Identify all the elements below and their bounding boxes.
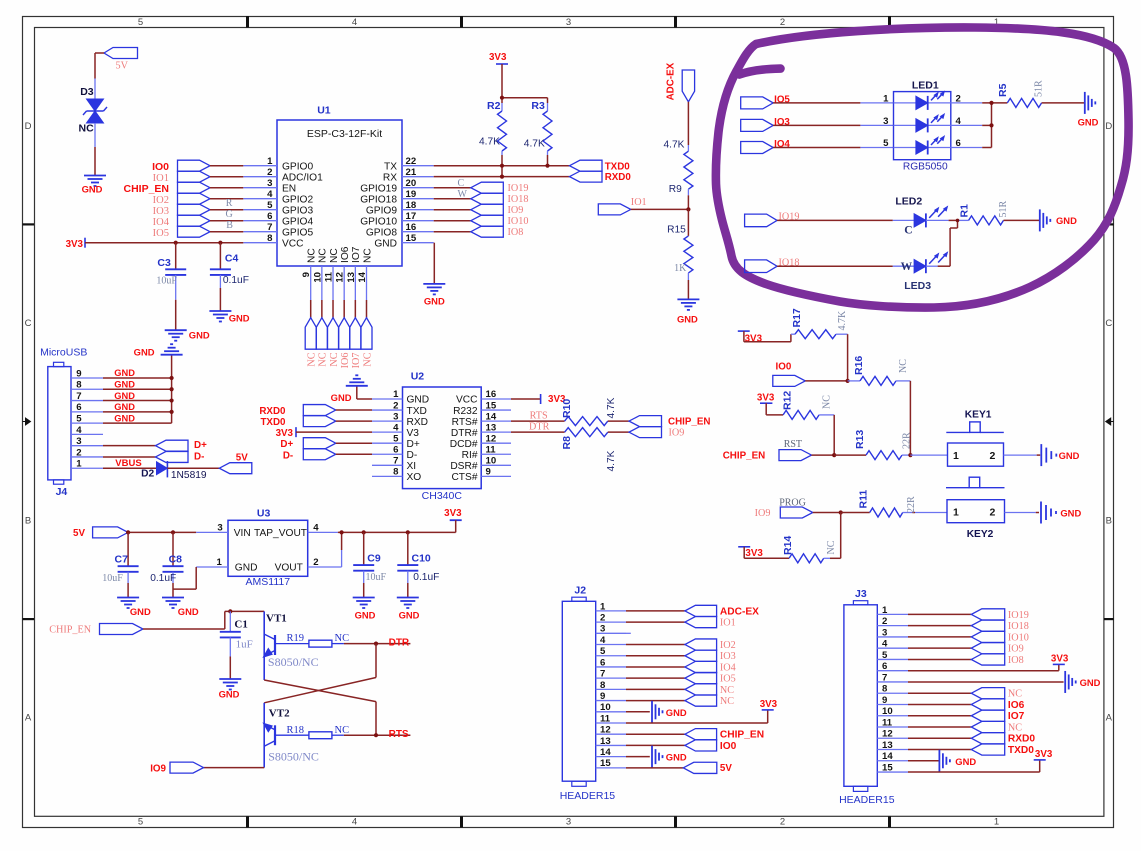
svg-text:2: 2 (313, 557, 318, 568)
node 3V3 (276, 427, 296, 439)
svg-text:NC: NC (822, 395, 833, 409)
svg-text:GND: GND (134, 346, 155, 357)
node IO9 (150, 762, 203, 774)
wire (1004, 454, 1037, 456)
svg-text:CH340C: CH340C (422, 490, 463, 502)
wire (354, 300, 356, 318)
svg-text:TXD0: TXD0 (1008, 745, 1034, 756)
svg-text:DTR#: DTR# (451, 428, 478, 439)
ground (1041, 502, 1081, 524)
resistor R17 4.7K (791, 308, 848, 339)
svg-text:CTS#: CTS# (451, 472, 477, 483)
resistor R1 51R (959, 201, 1010, 225)
svg-text:U1: U1 (317, 105, 331, 117)
svg-text:GND: GND (1080, 677, 1101, 688)
svg-text:4: 4 (352, 17, 357, 28)
diode D3 (TVS) (79, 86, 108, 134)
svg-text:DTR: DTR (529, 422, 550, 433)
svg-text:HEADER15: HEADER15 (839, 794, 895, 806)
wire (908, 658, 971, 660)
svg-text:3V3: 3V3 (760, 699, 778, 710)
ground (652, 746, 687, 768)
svg-text:R: R (226, 198, 233, 209)
wire (626, 767, 683, 769)
svg-text:GND: GND (130, 606, 151, 617)
svg-text:11: 11 (600, 713, 611, 724)
svg-text:NC: NC (362, 248, 373, 263)
wire (626, 711, 650, 713)
svg-text:IO1: IO1 (631, 197, 647, 208)
wire (773, 102, 860, 104)
svg-text:NC: NC (362, 352, 373, 366)
svg-text:5: 5 (76, 414, 82, 425)
op-amp U1 ESP-C3-12F-Kit (243, 105, 433, 301)
wire (687, 102, 689, 145)
wire (434, 220, 471, 222)
svg-text:TAP_VOUT: TAP_VOUT (254, 528, 307, 539)
svg-text:4.7K: 4.7K (664, 140, 685, 151)
node IO0 (152, 160, 210, 173)
wire (908, 613, 971, 615)
wire RX (434, 176, 570, 178)
svg-text:S8050/NC: S8050/NC (268, 655, 319, 669)
svg-text:TXD: TXD (407, 406, 427, 417)
svg-text:GPIO0: GPIO0 (282, 161, 313, 172)
svg-text:0.1uF: 0.1uF (223, 275, 249, 286)
svg-text:RGB5050: RGB5050 (903, 162, 948, 173)
svg-text:GPIO9: GPIO9 (366, 205, 397, 216)
svg-text:R8: R8 (561, 436, 573, 450)
svg-text:PROG: PROG (779, 498, 806, 509)
svg-text:0.1uF: 0.1uF (413, 572, 439, 583)
wire (626, 733, 685, 735)
wire (502, 64, 548, 103)
wire (805, 380, 847, 382)
node IO10 (971, 631, 1029, 643)
svg-text:C8: C8 (169, 554, 183, 566)
wire (95, 53, 104, 99)
wire (547, 155, 549, 166)
svg-text:IO3: IO3 (720, 651, 736, 662)
svg-text:4: 4 (882, 639, 888, 650)
svg-text:GND: GND (114, 391, 135, 401)
op-amp U2 CH340C (372, 371, 511, 502)
svg-text:R9: R9 (669, 184, 682, 195)
svg-text:IO5: IO5 (153, 228, 169, 239)
svg-text:U2: U2 (411, 371, 425, 383)
wire (773, 147, 860, 149)
node NC (685, 684, 734, 696)
node CHIP_EN (123, 182, 210, 195)
wire (626, 655, 685, 657)
svg-text:1: 1 (883, 93, 889, 104)
svg-text:10: 10 (600, 702, 611, 713)
svg-text:10uF: 10uF (156, 275, 177, 286)
svg-text:VT2: VT2 (269, 707, 290, 719)
wire (336, 420, 372, 422)
svg-text:DSR#: DSR# (450, 461, 478, 472)
power flag 5V (683, 762, 717, 773)
wire (926, 265, 938, 267)
svg-text:3: 3 (76, 436, 81, 447)
svg-text:B: B (25, 516, 31, 527)
svg-text:IO19: IO19 (1008, 610, 1029, 621)
svg-text:5: 5 (882, 650, 888, 661)
svg-text:IO0: IO0 (720, 741, 737, 752)
wire (321, 300, 323, 318)
node 3V3 (1034, 749, 1053, 760)
resistor R5 51R (997, 80, 1045, 107)
svg-text:3: 3 (882, 627, 887, 638)
svg-text:RST: RST (784, 439, 802, 450)
node IO5 (153, 226, 210, 239)
wire (127, 583, 129, 598)
resistor R8 4.7K (561, 428, 617, 472)
wire (332, 300, 334, 318)
svg-text:U3: U3 (257, 508, 271, 520)
svg-text:10uF: 10uF (366, 572, 387, 583)
svg-text:IO7: IO7 (1008, 711, 1025, 722)
node IO9 (971, 643, 1023, 655)
svg-text:6: 6 (600, 657, 605, 668)
wire (833, 415, 835, 455)
svg-text:7: 7 (76, 391, 81, 402)
svg-text:D-: D- (283, 450, 293, 461)
svg-text:1K: 1K (674, 263, 687, 274)
wire (908, 703, 971, 705)
wire GND (103, 368, 172, 378)
svg-text:3V3: 3V3 (745, 548, 763, 559)
node TXD0 (260, 416, 335, 429)
wire (143, 611, 264, 629)
svg-text:IO6: IO6 (1008, 700, 1025, 711)
svg-text:GPIO5: GPIO5 (282, 227, 313, 238)
node IO18 (971, 620, 1029, 632)
svg-text:5V: 5V (73, 528, 85, 539)
transistor VT2 S8050 (263, 703, 319, 768)
wire (626, 677, 685, 679)
svg-text:NC: NC (826, 540, 837, 554)
wire (310, 300, 312, 318)
node D+ (103, 440, 207, 451)
LED LED2 (895, 195, 947, 236)
svg-text:9: 9 (882, 695, 887, 706)
svg-text:VIN: VIN (234, 528, 251, 539)
ground (677, 299, 699, 324)
power flag 5V (104, 48, 138, 72)
node IO1 (153, 171, 210, 184)
svg-text:GPIO4: GPIO4 (282, 216, 313, 227)
junction (406, 530, 410, 534)
wire (982, 103, 1007, 148)
svg-text:D+: D+ (407, 439, 420, 450)
ground (1078, 92, 1099, 128)
svg-text:GND: GND (82, 183, 103, 194)
svg-text:KEY2: KEY2 (967, 529, 994, 540)
svg-text:4.7K: 4.7K (837, 310, 848, 331)
wire (336, 409, 372, 411)
svg-text:GND: GND (407, 395, 430, 406)
svg-text:IO10: IO10 (508, 216, 529, 227)
svg-text:GND: GND (355, 610, 376, 621)
junction (218, 241, 222, 245)
node D- (103, 451, 204, 462)
wire (336, 453, 372, 455)
node IO19 (745, 212, 800, 227)
resistor R16 NC (848, 356, 911, 386)
wire (210, 220, 243, 222)
resistor R10 4.7K (561, 397, 617, 425)
svg-text:IO6: IO6 (340, 353, 351, 369)
wire RTS (511, 411, 565, 422)
svg-text:9: 9 (76, 368, 81, 379)
svg-text:IO9: IO9 (150, 763, 166, 774)
svg-text:NC: NC (720, 696, 734, 707)
svg-text:NC: NC (318, 352, 329, 366)
node IO19 (971, 609, 1029, 621)
svg-text:S8050/NC: S8050/NC (268, 750, 319, 764)
node NC (316, 318, 328, 367)
svg-text:7: 7 (882, 672, 887, 683)
svg-text:51R: 51R (1034, 80, 1045, 97)
svg-text:GND: GND (189, 330, 210, 341)
wire (908, 749, 971, 751)
node IO4 (741, 139, 791, 154)
wire (626, 610, 685, 612)
svg-text:13: 13 (882, 740, 893, 751)
power flag 5V (219, 452, 252, 473)
wire (167, 467, 219, 469)
svg-text:C3: C3 (157, 257, 171, 269)
svg-text:RXD0: RXD0 (259, 406, 286, 417)
junction (500, 175, 504, 179)
svg-text:GND: GND (114, 368, 135, 378)
svg-text:NC: NC (1008, 722, 1022, 733)
node CHIP_EN (49, 624, 143, 636)
op-amp U3 AMS1117 (196, 508, 341, 588)
svg-text:CHIP_EN: CHIP_EN (720, 730, 764, 741)
node IO10 (471, 215, 529, 227)
svg-text:IO18: IO18 (508, 194, 529, 205)
svg-text:4.7K: 4.7K (524, 139, 545, 150)
capacitor C7 (102, 532, 138, 584)
wire (626, 756, 650, 758)
wire (626, 744, 685, 746)
wire (210, 165, 243, 167)
node 3V3 (760, 699, 778, 710)
svg-text:4: 4 (76, 425, 82, 436)
svg-text:V3: V3 (407, 428, 420, 439)
node NC (971, 721, 1022, 733)
svg-text:B: B (1106, 516, 1112, 527)
svg-text:2: 2 (990, 450, 996, 462)
wire (744, 334, 795, 342)
node IO18 (745, 257, 800, 272)
svg-text:TX: TX (384, 161, 397, 172)
wire (908, 670, 1059, 672)
ground (939, 750, 976, 772)
wire GND (103, 402, 172, 412)
svg-text:2: 2 (990, 507, 996, 519)
svg-text:GND: GND (229, 312, 250, 323)
svg-text:9: 9 (600, 691, 605, 702)
junction (171, 530, 175, 534)
svg-text:VT1: VT1 (266, 612, 287, 624)
svg-text:3V3: 3V3 (276, 428, 294, 439)
svg-text:IO7: IO7 (351, 246, 362, 263)
svg-text:IO2: IO2 (153, 195, 169, 206)
svg-text:3: 3 (566, 17, 571, 28)
wire (847, 334, 849, 381)
svg-text:J2: J2 (574, 585, 586, 597)
wire (501, 155, 503, 177)
node IO7 (971, 710, 1024, 722)
junction (846, 379, 850, 383)
svg-text:C: C (458, 178, 465, 189)
node CHIP_EN RST (723, 439, 812, 462)
svg-text:C9: C9 (367, 553, 381, 565)
wire (363, 583, 365, 598)
svg-text:HEADER15: HEADER15 (560, 790, 616, 802)
svg-text:J4: J4 (56, 486, 68, 498)
svg-text:3V3: 3V3 (1051, 653, 1069, 664)
ground (353, 598, 376, 621)
svg-text:IO9: IO9 (508, 205, 524, 216)
resistor R13 22R (834, 430, 912, 460)
svg-text:13: 13 (600, 736, 611, 747)
svg-text:C7: C7 (115, 554, 129, 566)
connector J3 HEADER15 (839, 588, 908, 806)
svg-text:VBUS: VBUS (115, 458, 141, 469)
node 3V3 (489, 52, 508, 64)
junction (374, 733, 378, 737)
svg-text:GND: GND (1078, 117, 1099, 128)
svg-text:ADC-EX: ADC-EX (720, 606, 759, 617)
svg-text:GPIO8: GPIO8 (366, 227, 397, 238)
connector J2 HEADER15 (560, 585, 626, 802)
node IO0 (685, 740, 737, 752)
wire cross (264, 644, 376, 736)
svg-text:DTR: DTR (389, 637, 410, 648)
node ADC-EX (666, 62, 695, 101)
wire (210, 198, 243, 200)
resistor R18 NC (287, 725, 350, 739)
svg-text:3V3: 3V3 (757, 393, 775, 404)
svg-text:0.1uF: 0.1uF (150, 573, 176, 584)
resistor R15 1K (667, 209, 693, 280)
svg-text:6: 6 (76, 402, 81, 413)
svg-text:LED2: LED2 (895, 195, 922, 207)
svg-text:XI: XI (407, 461, 417, 472)
svg-text:14: 14 (600, 747, 611, 758)
switch KEY2 (946, 477, 1005, 540)
svg-text:R11: R11 (858, 490, 870, 509)
svg-text:A: A (1106, 713, 1113, 724)
svg-text:GND: GND (666, 752, 687, 763)
wire (434, 198, 471, 200)
wire (229, 657, 231, 680)
ground (165, 330, 210, 341)
node IO9 (629, 427, 684, 439)
wire GND (103, 413, 172, 423)
svg-text:NC: NC (329, 248, 340, 263)
wire (210, 187, 243, 189)
svg-text:12: 12 (600, 725, 611, 736)
svg-text:1: 1 (600, 601, 606, 612)
svg-text:2: 2 (76, 447, 81, 458)
svg-text:7: 7 (600, 669, 605, 680)
capacitor C9 (353, 532, 386, 583)
wire (687, 280, 689, 299)
node ADC-EX (685, 605, 759, 617)
node 3V3 (738, 331, 763, 344)
node RXD0 (259, 405, 335, 418)
annotation purple loop (716, 27, 1129, 307)
junction (500, 164, 504, 168)
svg-text:DCD#: DCD# (450, 439, 478, 450)
svg-text:3: 3 (883, 116, 888, 127)
svg-text:RXD0: RXD0 (605, 172, 632, 183)
svg-text:IO9: IO9 (669, 428, 685, 439)
svg-text:R10: R10 (561, 399, 573, 418)
wire DTR (511, 422, 565, 433)
LED LED3 (901, 252, 948, 292)
svg-text:RTS#: RTS# (452, 417, 478, 428)
svg-text:R3: R3 (531, 100, 545, 112)
wire (626, 644, 685, 646)
switch KEY1 (946, 410, 1004, 467)
diode D2 1N5819 (141, 461, 207, 481)
node IO4 (685, 661, 736, 673)
svg-text:B: B (226, 220, 233, 231)
svg-text:1uF: 1uF (236, 639, 253, 651)
ground (82, 176, 106, 195)
junction (170, 398, 174, 402)
svg-text:CHIP_EN: CHIP_EN (668, 417, 710, 428)
junction (174, 241, 178, 245)
svg-text:1: 1 (953, 507, 959, 519)
svg-text:5: 5 (138, 17, 143, 28)
svg-text:TXD0: TXD0 (605, 161, 631, 172)
node IO4 (153, 215, 210, 228)
svg-text:GND: GND (677, 313, 698, 324)
node NC (685, 695, 734, 707)
svg-text:RX: RX (383, 172, 397, 183)
svg-text:GND: GND (399, 610, 420, 621)
svg-text:5: 5 (600, 646, 606, 657)
svg-text:IO10: IO10 (1008, 632, 1029, 643)
svg-text:ADC-EX: ADC-EX (666, 62, 677, 100)
svg-text:GPIO2: GPIO2 (282, 194, 313, 205)
svg-text:GND: GND (1060, 507, 1081, 518)
svg-text:5: 5 (883, 138, 889, 149)
svg-text:R19: R19 (287, 633, 305, 644)
svg-text:KEY1: KEY1 (965, 410, 992, 421)
svg-text:IO5: IO5 (720, 674, 736, 685)
node IO9 (471, 204, 524, 216)
svg-text:3: 3 (566, 817, 571, 828)
wire (910, 454, 947, 456)
svg-text:5V: 5V (116, 61, 129, 72)
svg-text:6: 6 (882, 661, 887, 672)
wire (210, 176, 243, 178)
power flag 5V (73, 527, 128, 539)
svg-text:GND: GND (235, 563, 258, 574)
svg-text:IO18: IO18 (1008, 621, 1029, 632)
ground (162, 598, 199, 617)
svg-text:3V3: 3V3 (745, 333, 763, 344)
junction (340, 530, 344, 534)
